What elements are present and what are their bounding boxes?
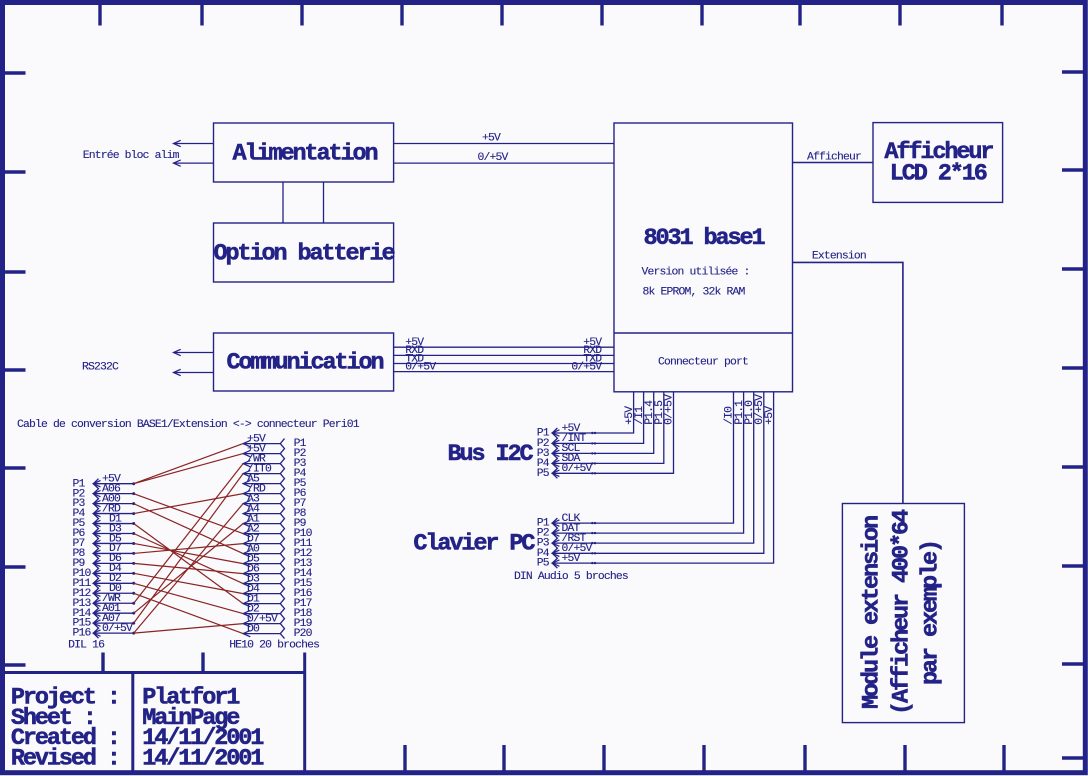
cable wire DIL16 P11 to HE10 P18 [134,583,243,613]
svg-text:Option batterie: Option batterie [213,240,394,267]
svg-text:Afficheur: Afficheur [807,151,861,163]
block Communication [214,333,394,391]
pin P7 DIL16 D5 [73,533,136,550]
cable wire DIL16 P16 to HE10 P7 [134,504,243,633]
wire 0/+5V Communication to Connecteur port [394,361,614,373]
cable wire DIL16 P9 to HE10 P14 [134,563,243,573]
pin P10 DIL16 D4 [73,563,136,580]
svg-text:LCD 2*16: LCD 2*16 [890,161,987,188]
svg-text:Connecteur port: Connecteur port [658,357,748,369]
pin P4 Clavier PC 0/+5V [537,392,766,560]
svg-text:Clavier PC: Clavier PC [413,531,535,558]
wire Extension 8031 to Module extension [793,251,903,504]
connector Bus I2C comb [552,428,557,478]
pin P3 DIL16 A00 [73,493,136,510]
pin P15 HE10 D3 [243,573,312,590]
pin P9 HE10 A1 [243,513,306,530]
wire Alimentation to Option batterie right [323,182,325,223]
pin P2 Clavier PC DAT [537,392,746,540]
pin P9 DIL16 D6 [73,553,136,570]
block 8031 base1 [614,123,793,392]
svg-text:14/11/2001: 14/11/2001 [142,745,264,772]
wire Alimentation to Option batterie left [282,182,284,223]
cable wire DIL16 P15 to HE10 P4 [134,474,243,624]
pin P13 HE10 D5 [243,553,312,570]
pin P6 HE10 /RD [243,483,306,500]
pin P7 HE10 A3 [243,493,306,510]
svg-text:0/+5V: 0/+5V [478,152,509,164]
svg-text:par exemple): par exemple) [918,541,945,685]
pin P14 DIL16 A01 [73,603,136,620]
svg-text:0/+5V: 0/+5V [571,361,602,373]
svg-text:Extension: Extension [812,251,866,263]
svg-text:P5: P5 [537,468,550,480]
pin P10 HE10 A2 [243,523,312,540]
svg-text:+5V: +5V [482,133,501,145]
cable wire DIL16 P4 to HE10 P6 [134,494,243,514]
border ruler ticks bottom [103,653,1004,772]
wire 0/+5V Alimentation to 8031 [394,152,614,164]
wire TXD Communication to Connecteur port [394,353,614,365]
svg-text:0/+5V: 0/+5V [102,623,133,635]
cable wire DIL16 P1 to HE10 P1 [134,444,243,484]
pin P1 HE10 +5V [243,433,306,450]
pin P3 Bus I2C SCL [537,392,656,460]
cable wire DIL16 P14 to HE10 P9 [134,524,243,614]
svg-text:Alimentation: Alimentation [232,140,377,167]
svg-text:DIL 16: DIL 16 [68,640,105,652]
svg-text:0/+5V: 0/+5V [562,463,593,475]
cable wire DIL16 P13 to HE10 P3 [134,464,243,604]
cable wire DIL16 P5 to HE10 P17 [134,524,243,604]
connector DIL 16 comb [93,479,98,638]
pin P13 DIL16 /WR [73,593,136,610]
wire RXD Communication to Connecteur port [394,345,614,357]
cable wire DIL16 P2 to HE10 P10 [134,494,243,534]
svg-text:Module extension: Module extension [859,516,886,709]
arrow RS232C lower [174,369,214,375]
pin P3 Clavier PC /RST [537,392,756,550]
pin P11 HE10 D7 [243,533,312,550]
pin P8 HE10 A4 [243,503,306,520]
pin P18 HE10 D2 [243,603,312,620]
cable wire DIL16 P8 to HE10 P11 [134,544,243,554]
pin P2 HE10 +5V [243,443,306,460]
svg-text:8k EPROM, 32k RAM: 8k EPROM, 32k RAM [643,287,746,299]
pin P6 DIL16 D3 [73,523,136,540]
svg-text:(Afficheur 400*64: (Afficheur 400*64 [889,509,916,715]
cable wire DIL16 P6 to HE10 P15 [134,534,243,584]
pin P12 HE10 A0 [243,543,312,560]
cable wire DIL16 P16 to HE10 P19 [134,624,243,634]
arrow Entree bloc alim upper [174,140,214,146]
pin P4 Bus I2C SDA [537,392,666,470]
wire Afficheur 8031 to LCD [793,151,874,163]
block Afficheur LCD 2x16 [873,123,1003,203]
cable wire DIL16 P7 to HE10 P13 [134,543,243,563]
svg-text:RS232C: RS232C [82,361,119,373]
pin P15 DIL16 A07 [73,613,136,630]
wire +5V Communication to Connecteur port [394,337,614,349]
pin P17 HE10 D1 [243,593,312,610]
wire +5V Alimentation to 8031 [394,133,614,145]
connector Clavier PC comb [552,518,557,568]
pin P5 HE10 A5 [243,473,306,490]
pin P8 DIL16 D7 [73,543,136,560]
svg-text:Cable de conversion BASE1/Exte: Cable de conversion BASE1/Extension <-> … [17,419,360,431]
pin P11 DIL16 D2 [73,573,136,590]
pin P2 Bus I2C /INT [537,392,646,450]
pin P16 HE10 D4 [243,583,312,600]
title block [3,653,305,773]
pin P16 DIL16 0/+5V [73,623,136,640]
svg-text:0/+5V: 0/+5V [664,394,676,425]
pin P14 HE10 D6 [243,563,312,580]
pin P5 Bus I2C 0/+5V [537,392,676,480]
svg-text:Entrée bloc alim: Entrée bloc alim [83,150,180,162]
svg-text:DIN Audio 5 broches: DIN Audio 5 broches [514,571,628,583]
block Alimentation [214,123,394,182]
cable wire DIL16 P3 to HE10 P12 [134,504,243,554]
pin P4 DIL16 /RD [73,503,136,520]
svg-text:+5V: +5V [764,406,776,425]
arrow Entree bloc alim lower [174,160,214,166]
border ruler ticks top [100,5,1002,26]
svg-text:Communication: Communication [226,350,383,377]
svg-text:Bus I2C: Bus I2C [447,441,533,468]
block Option batterie [213,223,394,282]
cable wire DIL16 P1 to HE10 P2 [134,454,243,484]
svg-text:D0: D0 [247,623,260,635]
arrow RS232C upper [174,349,214,355]
pin P1 Clavier PC CLK [537,392,736,530]
pin P20 HE10 D0 [243,623,312,640]
svg-text:Revised :: Revised : [11,745,119,772]
svg-text:P16: P16 [73,628,92,640]
pin P4 HE10 /IT0 [243,463,306,480]
block Module extension (rotated text) [842,504,964,723]
connector HE10 comb [280,439,284,639]
svg-text:+5V: +5V [562,553,581,565]
pin P5 DIL16 D1 [73,513,136,530]
svg-text:Version utilisée :: Version utilisée : [642,267,750,279]
svg-text:P5: P5 [537,558,550,570]
cable wire DIL16 P10 to HE10 P16 [134,573,243,593]
svg-text:P20: P20 [294,628,313,640]
svg-text:8031 base1: 8031 base1 [643,225,765,252]
pin P3 HE10 /WR [243,453,306,470]
pin P19 HE10 0/+5V [243,613,312,630]
border ruler ticks left [5,73,26,665]
cable wire DIL16 P12 to HE10 P20 [134,593,243,633]
svg-text:HE10 20 broches: HE10 20 broches [229,640,319,652]
pin P1 Bus I2C +5V [537,392,636,440]
pin P12 DIL16 D0 [73,583,136,600]
pin P2 DIL16 A06 [73,483,136,500]
pin P5 Clavier PC +5V [537,392,776,570]
svg-text:0/+5V: 0/+5V [405,361,436,373]
pin P1 DIL16 +5V [73,474,136,491]
divider Connecteur port section [614,332,793,334]
border ruler ticks right [1062,72,1083,758]
